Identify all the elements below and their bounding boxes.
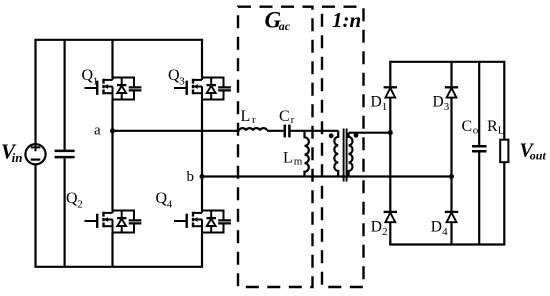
- wire: Q1/Q2 leg middle (through node a): [111, 100, 113, 211]
- svg-text:1: 1: [382, 101, 388, 113]
- capacitor: input DC-link capacitor: [55, 151, 75, 157]
- wire: Vin branch lower segment: [34, 164, 36, 266]
- transformer T1 primary winding: [334, 131, 338, 177]
- wire: Q3/Q4 leg to bottom rail: [201, 233, 203, 267]
- svg-text:L: L: [498, 125, 505, 137]
- diode D1: [384, 87, 397, 97]
- wire: Q1/Q2 leg from top rail: [111, 40, 113, 78]
- diode D2: [384, 212, 397, 222]
- node a junction dot: [110, 128, 115, 133]
- transformer primary phase dot: [329, 133, 334, 138]
- wire: Vin branch upper segment: [34, 40, 36, 144]
- svg-text:D: D: [371, 94, 382, 111]
- inductor Lm (magnetizing inductance, vertical): [305, 131, 309, 177]
- boundary box Gac (dashed): [238, 7, 313, 287]
- wire: RL branch lower: [503, 162, 505, 244]
- wire: D3/D4 leg middle: [450, 98, 452, 212]
- transformer T1 secondary winding: [349, 133, 353, 177]
- node b junction dot: [200, 174, 205, 179]
- capacitor Cr (series resonant capacitor): [285, 125, 290, 138]
- svg-text:Q: Q: [82, 67, 94, 84]
- junction dot: secondary bottom to D3/D4 leg: [449, 174, 454, 179]
- resistor RL (load): [500, 140, 508, 163]
- transformer T1 core: [344, 129, 347, 182]
- svg-text:4: 4: [442, 226, 448, 238]
- wire: Cr to transformer primary top: [289, 130, 338, 132]
- wire: Q3/Q4 leg middle (through node b): [201, 100, 203, 211]
- svg-text:C: C: [279, 108, 290, 125]
- svg-text:C: C: [462, 118, 473, 135]
- wire: D1/D2 leg upper: [389, 62, 391, 88]
- boundary box 1:n (dashed): [322, 7, 364, 287]
- diode D3: [445, 87, 458, 97]
- wire: secondary bottom lead to rectifier right leg: [349, 175, 452, 177]
- wire: RL branch upper: [503, 62, 505, 140]
- wire: output bottom rail: [390, 243, 504, 245]
- wire: node b to transformer primary bottom: [202, 175, 349, 177]
- svg-text:o: o: [473, 125, 479, 137]
- wire: output top rail: [390, 61, 504, 63]
- wire: D1/D2 leg lower: [389, 222, 391, 244]
- wire: input capacitor branch lower: [63, 158, 65, 267]
- wire: D1/D2 leg middle: [389, 98, 391, 212]
- svg-text:in: in: [12, 150, 23, 165]
- transformer secondary phase dot: [354, 133, 359, 138]
- svg-text:D: D: [371, 219, 382, 236]
- junction dot: secondary top to D1/D2 leg: [388, 130, 393, 135]
- svg-text:1: 1: [93, 76, 99, 88]
- wire: Co branch lower: [478, 151, 480, 244]
- wire: Lr to Cr: [267, 130, 285, 132]
- wire: Co branch upper: [478, 62, 480, 146]
- svg-text:ac: ac: [279, 19, 291, 33]
- svg-text:out: out: [530, 148, 547, 162]
- svg-text:3: 3: [444, 101, 450, 113]
- wire: Q1/Q2 leg to bottom rail: [111, 233, 113, 267]
- wire: input bridge top rail: [36, 39, 203, 41]
- svg-text:1:n: 1:n: [332, 8, 361, 32]
- svg-text:m: m: [294, 156, 303, 168]
- transistor Q1 (MOSFET with body diode and capacitor): [85, 78, 142, 100]
- transistor Q4 (MOSFET with body diode and capacitor): [174, 211, 231, 233]
- svg-text:4: 4: [167, 198, 173, 210]
- wire: input capacitor branch upper: [63, 40, 65, 150]
- wire: D3/D4 leg lower: [450, 222, 452, 244]
- capacitor Co (output filter capacitor): [472, 146, 487, 151]
- svg-text:L: L: [241, 108, 251, 125]
- svg-text:2: 2: [77, 198, 83, 210]
- svg-text:R: R: [487, 118, 498, 135]
- svg-text:2: 2: [382, 226, 388, 238]
- wire: Q3/Q4 leg from top rail: [201, 40, 203, 78]
- svg-text:D: D: [431, 219, 442, 236]
- svg-text:b: b: [187, 169, 195, 185]
- svg-text:Q: Q: [66, 190, 78, 207]
- svg-text:3: 3: [179, 76, 185, 88]
- svg-text:a: a: [94, 123, 101, 139]
- svg-text:r: r: [291, 114, 295, 126]
- wire: input bridge bottom rail: [36, 266, 203, 268]
- inductor Lr (series resonant inductor): [239, 128, 267, 131]
- svg-text:D: D: [433, 94, 444, 111]
- svg-text:Q: Q: [168, 67, 180, 84]
- transistor Q3 (MOSFET with body diode and capacitor): [174, 78, 231, 100]
- svg-text:r: r: [252, 114, 256, 126]
- svg-text:Q: Q: [156, 190, 168, 207]
- wire: D3/D4 leg upper: [450, 62, 452, 88]
- transistor Q2 (MOSFET with body diode and capacitor): [85, 211, 142, 233]
- wire: secondary top lead to rectifier left leg: [349, 132, 391, 134]
- svg-text:L: L: [283, 150, 293, 167]
- voltage source Vin (circle with plus/minus): [25, 144, 45, 165]
- diode D4: [445, 212, 458, 222]
- wire: node a to resonant inductor Lr: [113, 130, 240, 132]
